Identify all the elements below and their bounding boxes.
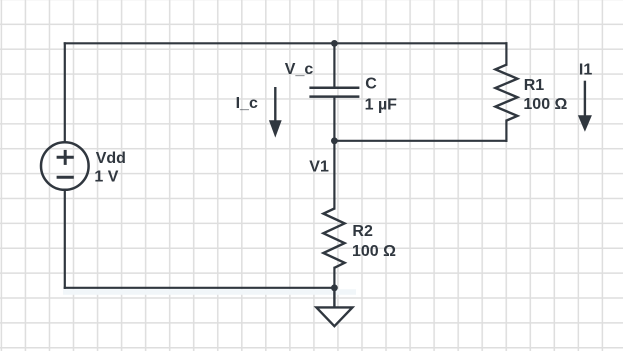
voltage source Vdd: [41, 142, 89, 190]
current arrow I1: [578, 81, 592, 132]
svg-text:100 Ω: 100 Ω: [523, 96, 567, 113]
svg-text:R1: R1: [524, 77, 545, 94]
svg-text:I1: I1: [579, 61, 592, 78]
bottom wire highlight band: [63, 289, 356, 295]
wire left vertical lower: [64, 190, 66, 288]
svg-text:Vdd: Vdd: [96, 150, 126, 167]
svg-text:1 V: 1 V: [94, 169, 118, 186]
current arrow I_c: [269, 87, 282, 138]
svg-text:100 Ω: 100 Ω: [352, 243, 396, 260]
svg-text:C: C: [365, 76, 377, 93]
wire bottom horizontal: [65, 287, 335, 289]
resistor R2: [323, 209, 344, 268]
wire R2 top lead: [333, 141, 335, 209]
junction bottom node: [331, 284, 338, 291]
wire capacitor top lead: [333, 43, 335, 88]
resistor R1: [495, 65, 517, 121]
wire left vertical upper: [64, 43, 66, 142]
svg-text:V_c: V_c: [285, 61, 314, 78]
ground: [316, 288, 352, 326]
wire R2 bottom lead: [333, 268, 335, 288]
junction node V1: [331, 137, 338, 144]
svg-text:V1: V1: [309, 158, 329, 175]
wire top horizontal: [65, 42, 507, 44]
capacitor C: [309, 88, 359, 97]
wire middle horizontal to R1: [334, 140, 506, 142]
junction top node: [331, 40, 338, 47]
wire R1 bottom lead: [505, 121, 507, 141]
wire capacitor bottom lead: [333, 97, 335, 141]
svg-text:1 µF: 1 µF: [365, 97, 398, 114]
wire R1 top lead: [505, 43, 507, 64]
svg-text:I_c: I_c: [236, 95, 258, 112]
svg-text:R2: R2: [352, 223, 373, 240]
